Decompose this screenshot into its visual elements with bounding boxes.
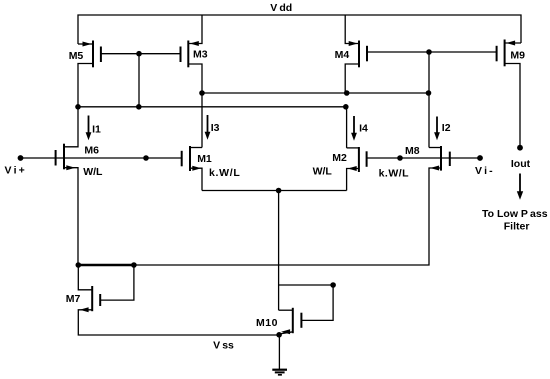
svg-text:M1: M1 [197,153,212,165]
svg-text:W/L: W/L [313,166,333,178]
svg-text:M3: M3 [193,49,208,61]
svg-text:M6: M6 [84,145,99,157]
svg-text:I1: I1 [92,124,101,136]
svg-text:Filter: Filter [504,221,530,233]
svg-text:To Low P ass: To Low P ass [482,208,548,220]
svg-text:k.W/L: k.W/L [379,168,410,180]
svg-text:V dd: V dd [270,2,292,14]
svg-text:V ss: V ss [213,340,234,352]
svg-text:I3: I3 [211,122,220,134]
svg-text:M7: M7 [66,293,81,305]
svg-text:W/L: W/L [83,166,103,178]
svg-text:k.W/L: k.W/L [209,167,241,179]
svg-text:Iout: Iout [511,158,531,170]
svg-text:M4: M4 [335,49,350,61]
svg-text:M5: M5 [69,50,84,62]
svg-text:V i +: V i + [5,165,25,177]
svg-text:M10: M10 [256,317,278,329]
svg-text:V i -: V i - [475,165,493,177]
svg-text:M9: M9 [510,50,525,62]
svg-text:I4: I4 [359,123,368,135]
svg-text:M2: M2 [332,152,347,164]
svg-text:M8: M8 [405,145,420,157]
svg-text:I2: I2 [442,122,451,134]
